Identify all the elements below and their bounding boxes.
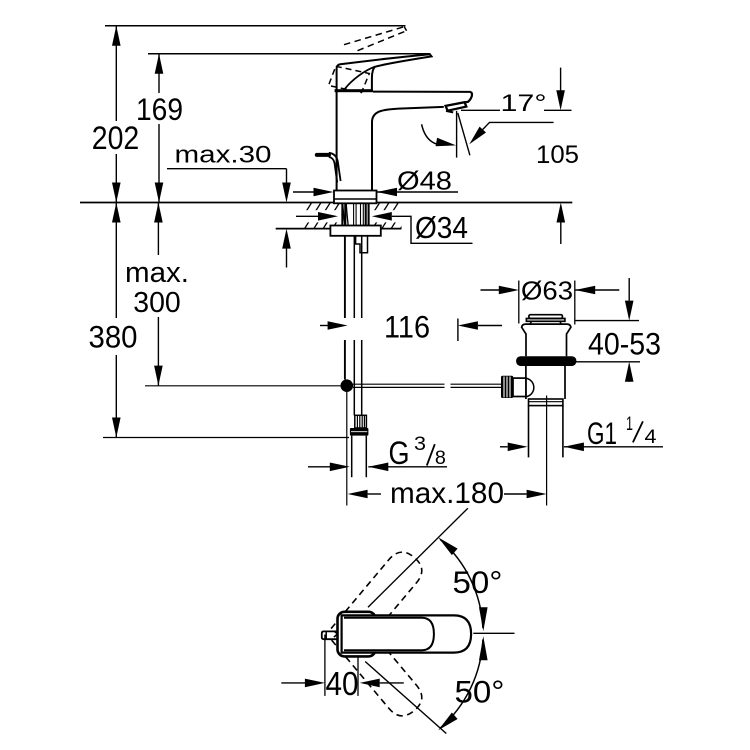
dimension 202 vertical line (89, 26, 141, 203)
mounting nut (330, 226, 380, 236)
swing angle ray lower (365, 662, 446, 734)
aerator (446, 102, 467, 112)
countertop deck surface (80, 203, 572, 229)
pop-up plug cap (526, 315, 565, 324)
svg-text:max.30: max.30 (175, 141, 272, 168)
handle swing dashed position lower (331, 616, 428, 722)
handle grip inner outline (top view) (344, 618, 434, 650)
svg-text:1: 1 (626, 414, 633, 435)
lever handle (solid) (337, 54, 432, 89)
check valve ribbed nut (355, 415, 367, 428)
dimension 116 (320, 308, 502, 344)
faucet base collar (334, 191, 377, 204)
white halo for diameter 34 dimension (303, 210, 341, 222)
svg-text:40: 40 (326, 665, 359, 702)
pull-rod knob at back of body (317, 153, 341, 183)
water stream vertical reference (456, 111, 458, 158)
svg-text:40-53: 40-53 (588, 326, 661, 362)
drain tailpipe G1 1/4 (529, 406, 563, 458)
svg-text:105: 105 (536, 141, 579, 169)
faucet centre line below ball joint (346, 392, 348, 506)
reference line at 380 depth (103, 437, 349, 439)
dimension 40-53 (573, 278, 661, 382)
drain thread relief band (529, 399, 563, 406)
dimension diameter 63 (481, 278, 620, 325)
svg-text:17°: 17° (501, 90, 547, 117)
svg-text:116: 116 (384, 308, 430, 344)
horizontal pop-up rod (353, 384, 502, 387)
reference line overall height 202 (105, 25, 406, 27)
threaded shank through deck (342, 203, 368, 231)
spout underside and body right edge (372, 107, 444, 191)
lever handle raised position (dashed) (329, 27, 407, 93)
dimension G1 1/4 (500, 414, 663, 451)
svg-text:169: 169 (136, 91, 183, 127)
dimension max.30 leader (167, 141, 291, 267)
reference line at max.300 depth (145, 385, 341, 387)
svg-text:50°: 50° (455, 673, 505, 709)
rod adjuster knob (black) (501, 376, 513, 398)
dimension 169 vertical line (133, 54, 186, 203)
dimension max.180 (348, 477, 547, 510)
svg-text:202: 202 (92, 120, 140, 156)
swing arc upper with arrows (438, 537, 487, 631)
swing arc lower with arrows (438, 636, 487, 730)
ball joint (341, 379, 354, 392)
rod connector boss (513, 378, 534, 397)
arc arrow for spray angle (422, 124, 456, 146)
drain lower body (526, 366, 565, 399)
cartridge cap (dark bar) (335, 89, 373, 92)
svg-text:Ø34: Ø34 (415, 210, 468, 245)
dimension 40 (281, 635, 404, 702)
handle body cap (top view) (338, 612, 376, 657)
supply hose (354, 236, 361, 415)
pull rod (344, 236, 346, 380)
svg-text:3: 3 (414, 434, 426, 455)
drain centre line (546, 396, 548, 506)
dimension G3/8 (308, 434, 447, 471)
svg-text:max.: max. (125, 257, 189, 289)
svg-text:max.180: max.180 (390, 477, 504, 510)
svg-text:300: 300 (133, 287, 181, 319)
temperature limiter tab (322, 631, 338, 639)
svg-text:8: 8 (435, 448, 446, 469)
water stream 17deg line (458, 113, 470, 155)
mounting bracket step (356, 236, 368, 253)
check valve black collar (350, 428, 369, 436)
swing angle ray upper (368, 508, 468, 607)
drain flange gasket (black) (516, 356, 576, 366)
reference line height 169 (148, 53, 430, 55)
spout nose (465, 92, 472, 103)
drain upper body (522, 324, 571, 356)
dimension diameter 48 (293, 165, 458, 196)
faucet body left edge (336, 92, 338, 191)
dimension 380 vertical line (85, 203, 142, 438)
label 17deg leader (469, 122, 553, 144)
svg-text:50°: 50° (453, 564, 503, 600)
spout top edge (373, 91, 471, 93)
svg-text:Ø63: Ø63 (521, 278, 573, 306)
handle lever bar (top view) (342, 615, 472, 652)
reference line spout outlet height (461, 109, 572, 111)
svg-text:380: 380 (89, 319, 138, 355)
svg-text:G: G (389, 435, 410, 471)
dimension 105 (536, 68, 579, 244)
check valve body tube (352, 436, 367, 478)
svg-text:4: 4 (645, 427, 657, 448)
handle swing dashed position upper (331, 546, 428, 652)
svg-text:Ø48: Ø48 (397, 165, 452, 195)
dimension diameter 34 (296, 210, 473, 245)
dimension max.300 vertical line (122, 203, 193, 386)
handle centre line (top view) (473, 632, 514, 634)
svg-text:G1: G1 (587, 415, 617, 451)
